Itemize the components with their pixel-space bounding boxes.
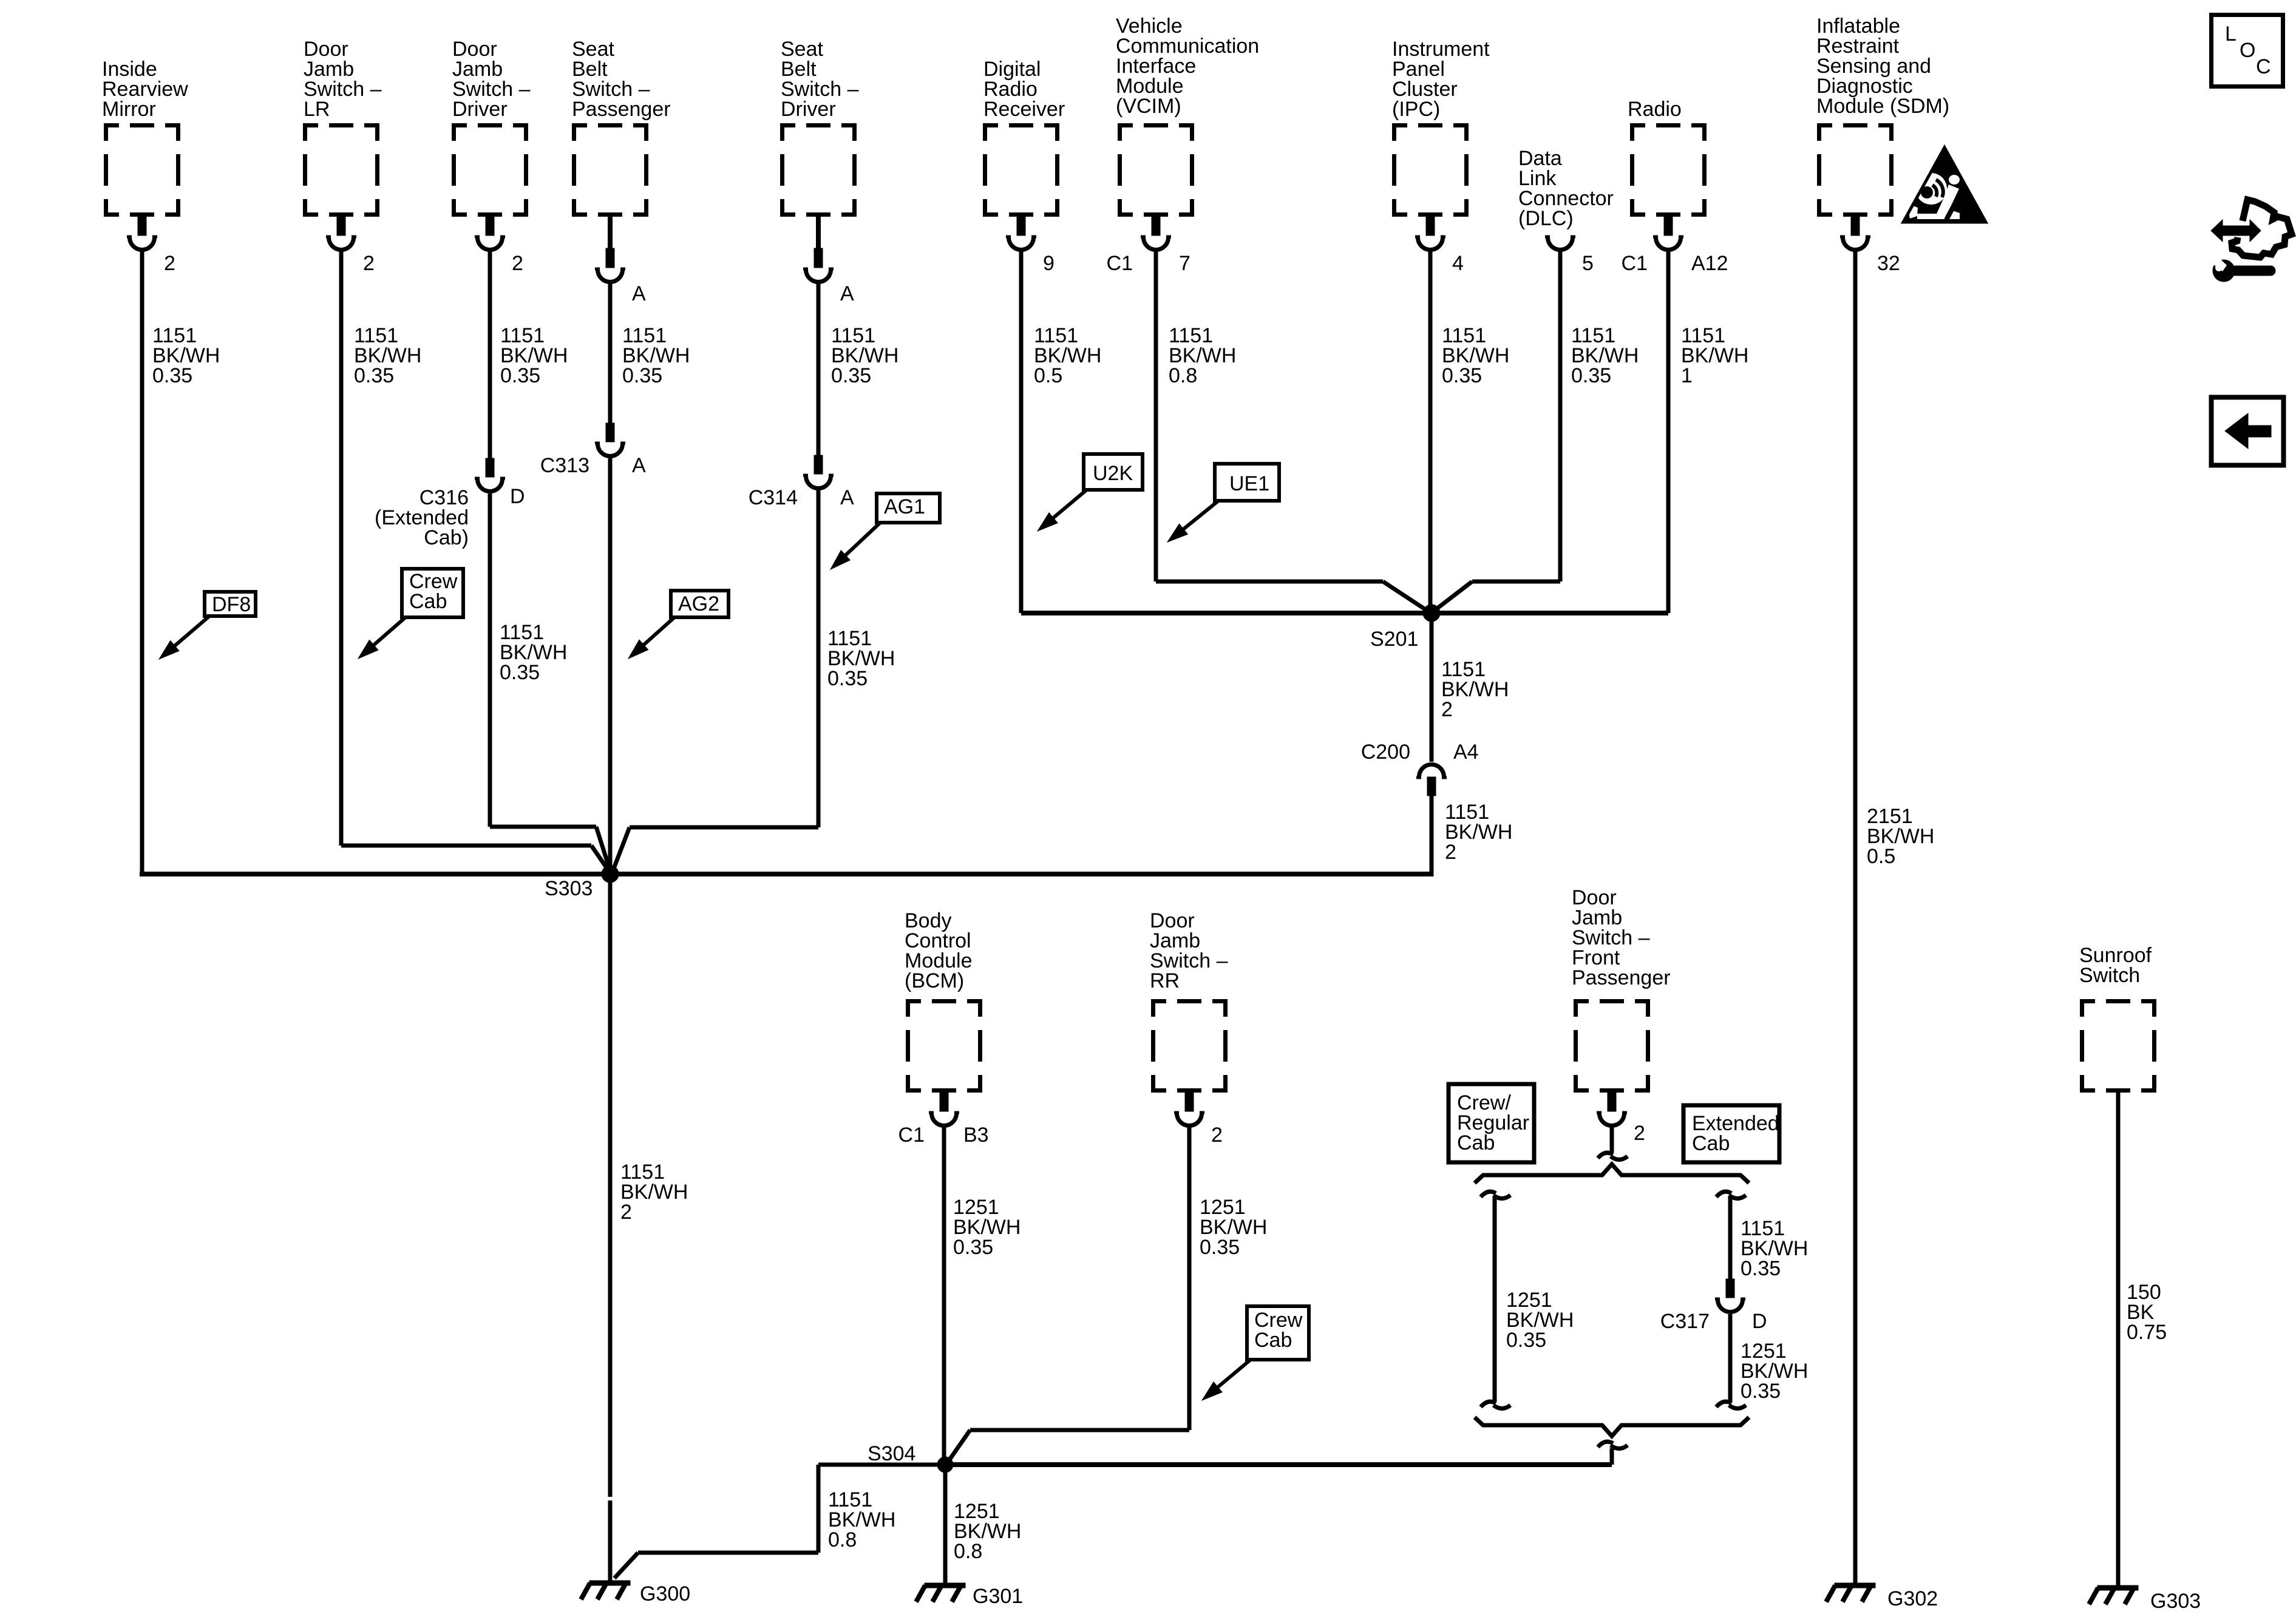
svg-text:(BCM): (BCM) [905, 969, 964, 992]
alternative wire crew/regular cab (1251 BK/WH 0.35) [1481, 1192, 1574, 1408]
svg-text:0.35: 0.35 [1571, 364, 1611, 387]
svg-text:A12: A12 [1691, 252, 1728, 275]
callout AG2 [628, 591, 729, 659]
wire: C313 to S303 [608, 458, 613, 874]
svg-text:D: D [510, 485, 525, 508]
svg-text:Passenger: Passenger [1572, 966, 1671, 989]
airbag warning triangle icon [1903, 147, 1986, 222]
svg-text:2: 2 [1634, 1122, 1645, 1145]
splice S304 [868, 1442, 953, 1473]
component: Sunroof Switch [2079, 944, 2156, 1093]
svg-text:Switch: Switch [2079, 964, 2140, 987]
svg-text:Cab): Cab) [424, 526, 469, 549]
alternative wire extended cab upper (1151 BK/WH 0.35) [1716, 1192, 1808, 1280]
connector C314 pin A [749, 455, 854, 509]
svg-text:Module (SDM): Module (SDM) [1816, 95, 1949, 118]
component: Instrument Panel Cluster (IPC) [1392, 38, 1490, 275]
svg-text:C1: C1 [1107, 252, 1133, 275]
svg-text:C313: C313 [540, 454, 589, 477]
svg-text:Receiver: Receiver [983, 98, 1065, 121]
connector C200 pin A4 [1361, 741, 1479, 796]
component: Door Jamb Switch - RR [1150, 909, 1228, 1147]
svg-text:(DLC): (DLC) [1518, 207, 1574, 230]
component: Door Jamb Switch - Front Passenger [1572, 886, 1671, 1145]
svg-text:Mirror: Mirror [102, 98, 156, 121]
wire: C317 to bottom brace (1251 BK/WH 0.35) [1716, 1314, 1808, 1409]
wire: S201 to C200 (1151 BK/WH 2) [1432, 613, 1509, 762]
svg-text:0.35: 0.35 [1741, 1380, 1781, 1403]
svg-text:0.8: 0.8 [954, 1540, 982, 1563]
svg-text:0.35: 0.35 [827, 667, 868, 690]
svg-text:5: 5 [1582, 252, 1594, 275]
svg-text:A: A [840, 486, 854, 509]
wire: seat belt driver to C314 (1151 BK/WH 0.35) [818, 283, 898, 455]
svg-text:Radio: Radio [1628, 98, 1682, 121]
svg-text:G302: G302 [1887, 1587, 1938, 1610]
left arrow reference box icon [2212, 398, 2284, 466]
svg-text:0.35: 0.35 [831, 364, 871, 387]
svg-text:2: 2 [363, 252, 375, 275]
svg-text:0.35: 0.35 [500, 661, 540, 684]
svg-text:C: C [2256, 55, 2271, 78]
component: Radio [1622, 98, 1728, 275]
wire: digital radio receiver to S201 (1151 BK/WH 0.5) [1021, 251, 1668, 613]
wire: radio to S201 (1151 BK/WH 1) [1668, 251, 1748, 613]
splice S303 [545, 866, 619, 900]
svg-text:B3: B3 [963, 1124, 989, 1147]
svg-text:G303: G303 [2150, 1590, 2201, 1613]
svg-text:O: O [2240, 39, 2255, 62]
svg-text:Cab: Cab [409, 590, 447, 613]
svg-text:0.35: 0.35 [1506, 1329, 1546, 1352]
wire: seat belt passenger to C313 (1151 BK/WH 0.35) [610, 283, 690, 423]
wire: door jamb RR to S304 (1251 BK/WH 0.35) [946, 1127, 1267, 1464]
svg-text:Cab: Cab [1254, 1329, 1292, 1352]
svg-text:RR: RR [1150, 969, 1180, 992]
ground G301 [916, 1583, 1023, 1608]
svg-text:0.5: 0.5 [1034, 364, 1062, 387]
svg-text:A: A [840, 282, 854, 305]
svg-text:LR: LR [304, 98, 330, 121]
component: Vehicle Communication Interface Module (VCIM) [1107, 15, 1260, 275]
wire: SDM pin 32 to G302 (2151 BK/WH 0.5) [1855, 251, 1934, 1583]
svg-text:0.35: 0.35 [1200, 1236, 1240, 1259]
wire: door jamb LR to S303 (1151 BK/WH 0.35) [341, 251, 611, 875]
component: Seat Belt Switch - Driver [780, 38, 859, 305]
component: Data Link Connector (DLC) [1518, 147, 1614, 275]
svg-text:2: 2 [512, 252, 523, 275]
component: Door Jamb Switch - LR [303, 38, 382, 275]
wire: C314 to S303 (1151 BK/WH 0.35) [611, 490, 895, 875]
connector C313 pin A [540, 423, 646, 477]
wire: VCIM to S201 (1151 BK/WH 0.8) [1156, 251, 1433, 614]
svg-text:0.8: 0.8 [828, 1528, 857, 1551]
connector C316 (Extended Cab) pin D [375, 458, 525, 549]
callout Crew Cab (upper) [358, 569, 463, 659]
callout Crew Cab (lower) [1202, 1306, 1309, 1400]
svg-text:Passenger: Passenger [572, 98, 671, 121]
svg-text:0.35: 0.35 [500, 364, 540, 387]
LOC reference box icon [2212, 15, 2283, 87]
svg-text:U2K: U2K [1093, 462, 1133, 485]
svg-text:Driver: Driver [452, 98, 508, 121]
svg-text:L: L [2225, 22, 2237, 46]
ground G302 [1826, 1583, 1938, 1610]
component: Seat Belt Switch - Passenger [572, 38, 671, 305]
top alternatives brace [1475, 1164, 1749, 1183]
wire: C316 to S303 (1151 BK/WH 0.35) [490, 493, 611, 875]
connector C317 pin D [1660, 1279, 1767, 1333]
svg-text:A: A [632, 454, 646, 477]
wire: IPC to S201 (1151 BK/WH 0.35) [1430, 251, 1509, 613]
service tool icon (double arrow, part outline, wrench) [2210, 200, 2292, 282]
svg-text:C1: C1 [1622, 252, 1648, 275]
wire: mirror pin 2 to S303 bus (1151 BK/WH 0.35) [140, 251, 1432, 874]
ground G300 [581, 1581, 690, 1605]
wire: S304 to G300 (1151 BK/WH 0.8) [614, 1465, 945, 1578]
svg-text:Cab: Cab [1457, 1131, 1495, 1154]
component: Door Jamb Switch - Driver [452, 38, 531, 275]
svg-text:0.35: 0.35 [354, 364, 394, 387]
svg-text:0.5: 0.5 [1867, 845, 1895, 868]
svg-text:AG2: AG2 [678, 592, 719, 615]
svg-text:4: 4 [1452, 252, 1464, 275]
wire: sunroof switch to G303 (150 BK 0.75) [2118, 1093, 2167, 1585]
component: Digital Radio Receiver [983, 58, 1065, 275]
svg-text:0.35: 0.35 [1442, 364, 1482, 387]
label box Extended Cab [1683, 1105, 1779, 1162]
callout UE1 [1167, 464, 1279, 542]
svg-text:C317: C317 [1660, 1310, 1710, 1333]
wire: split to S304 [945, 1442, 1628, 1465]
svg-text:UE1: UE1 [1229, 472, 1269, 495]
svg-text:A4: A4 [1453, 741, 1479, 764]
svg-text:G300: G300 [640, 1582, 690, 1605]
svg-text:C1: C1 [898, 1124, 925, 1147]
svg-text:9: 9 [1043, 252, 1055, 275]
svg-text:(IPC): (IPC) [1392, 98, 1440, 121]
component: Inflatable Restraint Sensing and Diagnostic Module (SDM) [1816, 15, 1949, 275]
wire: S304 to G301 (1251 BK/WH 0.8) [945, 1465, 1021, 1583]
svg-text:0.35: 0.35 [1741, 1257, 1781, 1280]
svg-text:1: 1 [1681, 364, 1693, 387]
splice S201 [1370, 605, 1440, 651]
wire: C200 to S303 bus (1151 BK/WH 2) [1432, 796, 1512, 876]
label box Crew/Regular Cab [1449, 1084, 1534, 1162]
svg-text:0.8: 0.8 [1169, 364, 1197, 387]
svg-text:D: D [1752, 1310, 1767, 1333]
svg-text:A: A [632, 282, 646, 305]
svg-text:32: 32 [1877, 252, 1900, 275]
bottom alternatives brace [1475, 1417, 1749, 1436]
component: Inside Rearview Mirror [102, 58, 188, 275]
svg-text:C200: C200 [1361, 741, 1410, 764]
callout AG1 [830, 493, 940, 569]
svg-text:2: 2 [164, 252, 175, 275]
svg-text:S201: S201 [1370, 628, 1418, 651]
svg-text:S304: S304 [868, 1442, 915, 1465]
svg-text:2: 2 [1445, 841, 1456, 864]
wire: BCM pin B3 to S304 (1251 BK/WH 0.35) [944, 1127, 1021, 1465]
svg-text:0.35: 0.35 [152, 364, 192, 387]
callout DF8 [159, 592, 256, 659]
svg-text:7: 7 [1179, 252, 1190, 275]
svg-text:DF8: DF8 [212, 593, 251, 616]
svg-text:2: 2 [620, 1201, 632, 1224]
svg-text:AG1: AG1 [884, 495, 925, 518]
svg-text:C314: C314 [749, 486, 798, 509]
svg-text:S303: S303 [545, 877, 593, 900]
svg-text:(VCIM): (VCIM) [1116, 95, 1181, 118]
svg-text:Cab: Cab [1692, 1132, 1730, 1155]
svg-text:0.75: 0.75 [2127, 1321, 2167, 1344]
svg-text:2: 2 [1441, 698, 1453, 721]
svg-text:G301: G301 [973, 1585, 1023, 1608]
svg-text:Driver: Driver [781, 98, 836, 121]
svg-text:0.35: 0.35 [622, 364, 662, 387]
callout U2K [1038, 454, 1143, 531]
wire: S303 down to G300 (1151 BK/WH 2) [610, 874, 688, 1583]
wire: DLC to S201 (1151 BK/WH 0.35) [1430, 251, 1639, 614]
wire: door jamb driver to C316 (1151 BK/WH 0.35) [490, 251, 568, 458]
svg-text:2: 2 [1211, 1124, 1223, 1147]
ground G303 [2089, 1585, 2201, 1613]
svg-text:0.35: 0.35 [953, 1236, 993, 1259]
component: Body Control Module (BCM) [898, 909, 989, 1147]
wire: door jamb front passenger pin 2 to split [1598, 1127, 1628, 1160]
